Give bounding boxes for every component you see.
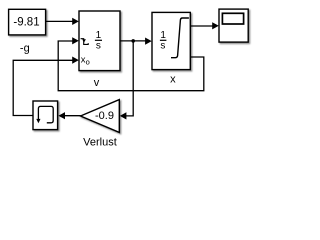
svg-text:1: 1 — [96, 30, 102, 41]
wire junction down to gain input — [126, 41, 134, 116]
svg-text:Verlust: Verlust — [83, 136, 117, 148]
arrowhead into memory input — [58, 112, 65, 119]
v block 1/s fraction — [95, 30, 102, 51]
v block falling-edge reset glyph — [81, 39, 89, 45]
svg-text:x: x — [170, 73, 176, 85]
wire x saturation output feedback to v reset port — [58, 41, 204, 91]
wire x output 1 to scope — [190, 25, 213, 27]
svg-text:-0.9: -0.9 — [95, 110, 114, 122]
constant block -9.81 — [9, 9, 46, 35]
svg-text:v: v — [94, 77, 100, 89]
arrowhead into x input — [145, 38, 152, 45]
x block saturation integral icon — [171, 18, 189, 58]
scope screen — [222, 13, 243, 24]
wire memory output to v x0 port — [13, 60, 74, 115]
arrowhead into v x0 port — [72, 57, 79, 64]
arrowhead into gain input — [120, 112, 127, 119]
integrator U2 x block body — [152, 12, 190, 69]
integrator U1 v block body — [79, 11, 120, 71]
arrowhead into v reset port — [72, 37, 79, 44]
svg-text:s: s — [96, 41, 101, 52]
gain block Verlust triangle — [81, 100, 120, 133]
arrowhead into scope — [212, 22, 219, 29]
v block x0 port label — [81, 55, 90, 67]
svg-text:o: o — [86, 57, 90, 66]
wire from constant -g to integrator v port 1 — [46, 20, 74, 22]
memory block body — [33, 101, 58, 130]
svg-text:-g: -g — [20, 43, 30, 55]
wire v output to x input — [120, 40, 147, 42]
x block 1/s fraction — [160, 30, 167, 51]
arrowhead into v port 1 — [72, 18, 79, 25]
scope block body — [219, 9, 248, 42]
svg-text:s: s — [160, 40, 165, 51]
svg-text:-9.81: -9.81 — [13, 16, 39, 28]
wire gain output to memory input — [65, 115, 81, 117]
junction node on v output — [131, 39, 135, 43]
memory loop icon — [38, 106, 53, 122]
